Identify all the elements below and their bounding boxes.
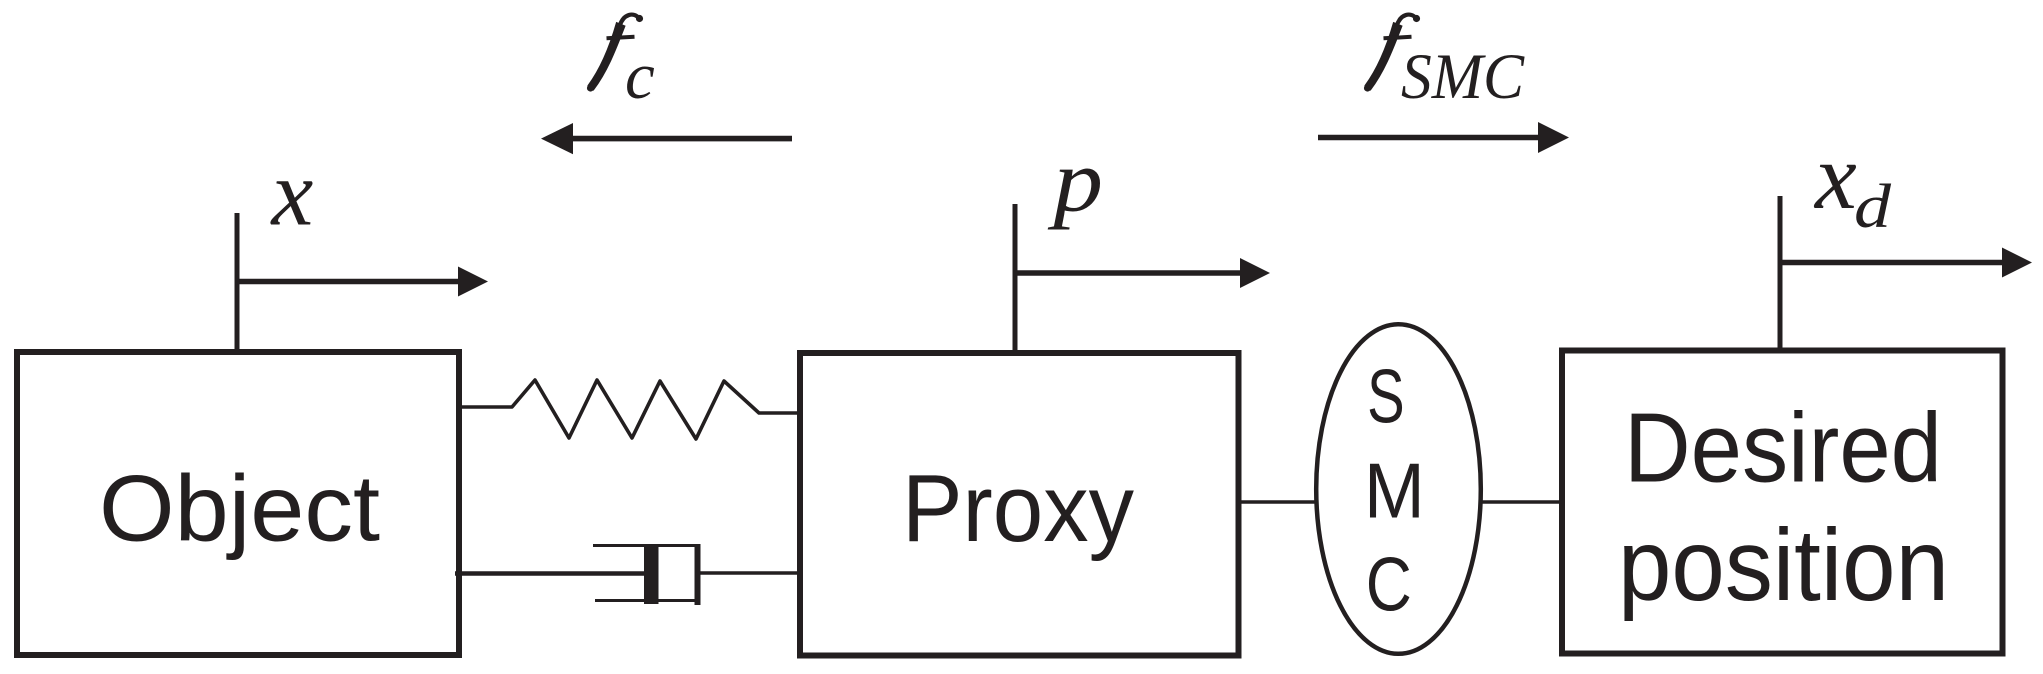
arrow p direction xyxy=(1015,258,1270,288)
node x_d position tick xyxy=(1778,196,1783,348)
damper between Object and Proxy xyxy=(455,544,797,605)
box Proxy xyxy=(800,353,1239,656)
svg-text:c: c xyxy=(625,39,655,113)
svg-text:S: S xyxy=(1367,354,1405,439)
arrow f_c force (leftward) xyxy=(541,123,792,154)
svg-text:x: x xyxy=(1813,125,1857,229)
svg-text:M: M xyxy=(1364,448,1425,535)
damper right rod xyxy=(700,571,797,575)
svg-text:Object: Object xyxy=(99,456,380,561)
svg-text:Proxy: Proxy xyxy=(902,455,1134,562)
svg-text:SMC: SMC xyxy=(1401,41,1525,113)
arrow x_d direction xyxy=(1780,248,2032,278)
wire SMC to Desired position xyxy=(1481,500,1562,504)
box Desired position xyxy=(1562,351,2003,654)
arrow f_SMC force (rightward) xyxy=(1318,122,1569,153)
label f_SMC : italic f with subscript SMC xyxy=(1364,15,1525,113)
svg-text:p: p xyxy=(1047,133,1103,231)
damper cylinder top wall xyxy=(593,544,700,547)
svg-text:Desired: Desired xyxy=(1624,393,1942,503)
damper cylinder bottom wall xyxy=(595,599,700,602)
svg-text:position: position xyxy=(1618,508,1949,622)
arrow x direction xyxy=(237,267,488,297)
label f_c : italic f with subscript c xyxy=(587,15,655,113)
box Object xyxy=(17,352,459,655)
svg-text:C: C xyxy=(1366,541,1412,627)
spring between Object and Proxy xyxy=(462,380,797,439)
svg-text:d: d xyxy=(1854,173,1892,241)
damper left rod xyxy=(455,571,652,575)
svg-text:x: x xyxy=(270,142,314,246)
wire Proxy to SMC xyxy=(1241,500,1316,504)
node x position tick xyxy=(235,213,240,349)
node p position tick xyxy=(1013,204,1018,350)
controller SMC ellipse xyxy=(1316,324,1481,654)
damper cylinder right wall xyxy=(695,544,701,605)
label x_d xyxy=(1813,125,1892,241)
damper piston xyxy=(644,544,659,604)
